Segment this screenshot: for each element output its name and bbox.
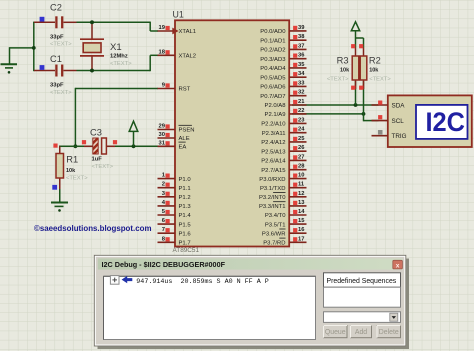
svg-text:R1: R1 — [66, 155, 78, 165]
svg-text:<TEXT>: <TEXT> — [50, 90, 72, 96]
U1 pin 2 P1.1 — [158, 187, 176, 189]
U1 pin 39 P0.0/AD0 — [289, 30, 306, 32]
svg-text:<TEXT>: <TEXT> — [327, 77, 349, 83]
svg-text:PSEN: PSEN — [179, 128, 195, 134]
svg-text:P1.0: P1.0 — [179, 177, 192, 183]
crystal X1 — [91, 23, 93, 39]
svg-text:10: 10 — [298, 173, 304, 179]
U1 pin 28 P2.7/A15 — [289, 169, 306, 171]
button Add — [351, 326, 372, 338]
U1 pin 13 P3.3/INT1 — [289, 205, 306, 207]
svg-text:<TEXT>: <TEXT> — [92, 164, 114, 170]
wire SCL net: U1 pin 22 to R2 then debugger — [292, 113, 364, 115]
debug log listbox — [104, 276, 316, 339]
svg-text:P3.7/RD: P3.7/RD — [263, 241, 285, 247]
resistor R2 10k — [363, 48, 365, 56]
svg-text:P3.3/INT1: P3.3/INT1 — [259, 204, 286, 210]
svg-text:22: 22 — [298, 108, 304, 114]
op-amp/MCU U1 AT89C51 body — [175, 20, 289, 246]
svg-text:7: 7 — [162, 227, 165, 233]
svg-text:P1.4: P1.4 — [179, 213, 192, 219]
svg-text:31: 31 — [159, 140, 166, 146]
svg-text:39: 39 — [298, 25, 305, 31]
node junction VCC arrow / EA wire — [132, 144, 136, 148]
svg-text:P0.5/AD5: P0.5/AD5 — [260, 75, 286, 81]
svg-text:Add: Add — [355, 329, 367, 336]
svg-text:TRIG: TRIG — [392, 133, 407, 140]
svg-text:25: 25 — [298, 136, 305, 142]
svg-text:P2.6/A14: P2.6/A14 — [261, 159, 286, 165]
wire R3 bottom to SDA — [355, 81, 357, 105]
U1 pin 8 P1.7 — [158, 241, 176, 243]
resistor R1 10k — [59, 146, 61, 154]
svg-text:26: 26 — [298, 145, 305, 151]
U1 pin 37 P0.2/AD2 — [289, 48, 306, 50]
svg-text:33: 33 — [298, 80, 305, 86]
svg-text:P2.3/A11: P2.3/A11 — [262, 131, 286, 137]
wire C1-C2 vertical bus — [33, 22, 35, 72]
svg-text:21: 21 — [298, 99, 305, 105]
svg-text:P0.4/AD4: P0.4/AD4 — [260, 66, 286, 72]
wire VCC to R3/R2 tops — [355, 30, 357, 48]
node junction redraw (crystal top) — [90, 20, 94, 24]
svg-text:P0.6/AD6: P0.6/AD6 — [260, 85, 286, 91]
svg-text:©saeedsolutions.blogspot.com: ©saeedsolutions.blogspot.com — [34, 223, 152, 233]
U1 pin 30 ALE — [158, 137, 176, 139]
svg-text:2: 2 — [162, 182, 165, 188]
svg-text:P3.6/WR: P3.6/WR — [262, 231, 286, 237]
svg-text:P0.3/AD3: P0.3/AD3 — [260, 57, 286, 63]
U1 pin 3 P1.2 — [158, 196, 176, 198]
capacitor C3 (1uF) — [84, 145, 93, 147]
svg-text:P1.7: P1.7 — [179, 241, 191, 247]
node junction crystal top — [90, 20, 94, 24]
svg-text:37: 37 — [298, 43, 304, 49]
I2C Debug window — [94, 255, 409, 349]
I2C debugger pin SDA — [372, 104, 388, 106]
U1 pin 33 P0.6/AD6 — [289, 85, 306, 87]
wire R2 bottom to SCL jog — [363, 81, 365, 121]
capacitor C2 — [34, 21, 55, 23]
svg-text:P3.1/TXD: P3.1/TXD — [260, 186, 286, 192]
svg-text:10k: 10k — [340, 67, 350, 73]
U1 pin 35 P0.4/AD4 — [289, 67, 306, 69]
U1 pin 9 RST — [158, 88, 176, 90]
wire R1 bottom to ground — [59, 178, 61, 203]
svg-text:18: 18 — [159, 49, 166, 55]
svg-text:XTAL1: XTAL1 — [179, 29, 197, 35]
svg-text:C1: C1 — [50, 54, 62, 64]
U1 pin 4 P1.3 — [158, 205, 176, 207]
svg-text:Delete: Delete — [379, 329, 399, 336]
svg-text:14: 14 — [298, 209, 305, 215]
U1 pin 21 P2.0/A8 — [289, 104, 306, 106]
svg-text:28: 28 — [298, 164, 305, 170]
U1 pin 34 P0.5/AD5 — [289, 76, 306, 78]
svg-text:34: 34 — [298, 71, 305, 77]
U1 pin 11 P3.1/TXD — [289, 187, 306, 189]
svg-text:<TEXT>: <TEXT> — [50, 42, 72, 48]
node junction R2/SCL — [362, 112, 366, 116]
svg-text:27: 27 — [298, 154, 304, 160]
U1 pin 23 P2.2/A10 — [289, 122, 306, 124]
sequence combo box — [324, 312, 401, 323]
log item blue arrow — [122, 276, 133, 283]
U1 pin 15 P3.5/T1 — [289, 223, 306, 225]
svg-text:19: 19 — [159, 25, 166, 31]
svg-text:RST: RST — [179, 87, 191, 93]
svg-text:33pF: 33pF — [50, 82, 64, 88]
svg-text:C2: C2 — [50, 3, 62, 13]
svg-text:XTAL2: XTAL2 — [179, 54, 197, 60]
ground symbol top-left — [1, 63, 18, 65]
U1 pin 22 P2.1/A9 — [289, 113, 306, 115]
svg-text:38: 38 — [298, 34, 305, 40]
wire EA/VCC net: R1 top - C3 - U1 pin 31 — [59, 145, 93, 147]
U1 pin 19 XTAL1 — [158, 30, 176, 32]
U1 pin 27 P2.6/A14 — [289, 159, 306, 161]
U1 pin 10 P3.0/RXD — [289, 178, 306, 180]
I2C debugger pin TRIG — [372, 135, 388, 137]
node junction RST/R1/C3 — [74, 144, 78, 148]
svg-text:P2.7/A15: P2.7/A15 — [261, 168, 286, 174]
U1 pin 1 P1.0 — [158, 178, 176, 180]
capacitor C1 — [34, 70, 55, 72]
node junction crystal bottom — [90, 69, 94, 73]
svg-text:P1.2: P1.2 — [179, 195, 191, 201]
svg-text:I2C: I2C — [425, 107, 465, 137]
svg-text:16: 16 — [298, 227, 305, 233]
predefined sequences listbox — [324, 287, 401, 307]
svg-text:X1: X1 — [110, 42, 122, 53]
button Delete — [377, 326, 401, 338]
svg-text:P3.5/T1: P3.5/T1 — [265, 222, 286, 228]
U1 pin 17 P3.7/RD — [289, 241, 306, 243]
U1 pin 38 P0.1/AD1 — [289, 39, 306, 41]
U1 pin 25 P2.4/A12 — [289, 141, 306, 143]
svg-text:P1.1: P1.1 — [179, 186, 191, 192]
svg-text:P0.1/AD1: P0.1/AD1 — [260, 38, 285, 44]
pin 19 clock input arrow — [172, 28, 178, 35]
svg-text:AT89C51: AT89C51 — [173, 247, 200, 254]
svg-text:P2.5/A13: P2.5/A13 — [261, 149, 286, 155]
node junction C1/C2/ground — [32, 46, 36, 50]
svg-text:I2C Debug - $II2C DEBUGGER#000: I2C Debug - $II2C DEBUGGER#000F — [102, 261, 226, 269]
wire XTAL2 net: C1 to U1 pin 18 — [77, 70, 151, 72]
svg-text:P1.3: P1.3 — [179, 204, 192, 210]
U1 pin 5 P1.4 — [158, 214, 176, 216]
svg-text:P3.2/INT0: P3.2/INT0 — [259, 195, 286, 201]
svg-text:11: 11 — [298, 182, 305, 188]
svg-text:P2.4/A12: P2.4/A12 — [261, 140, 285, 146]
svg-text:P0.0/AD0: P0.0/AD0 — [260, 29, 286, 35]
svg-text:<TEXT>: <TEXT> — [66, 176, 88, 182]
wire RST net: U1 pin 9 to R1/C3 node — [75, 88, 158, 90]
svg-text:32: 32 — [298, 90, 304, 96]
svg-text:12: 12 — [298, 191, 304, 197]
U1 pin 36 P0.3/AD3 — [289, 58, 306, 60]
svg-text:36: 36 — [298, 53, 305, 59]
U1 pin 26 P2.5/A13 — [289, 150, 306, 152]
U1 pin 7 P1.6 — [158, 232, 176, 234]
U1 pin 12 P3.2/INT0 — [289, 196, 306, 198]
svg-text:SCL: SCL — [392, 118, 405, 125]
svg-text:x: x — [396, 262, 400, 269]
svg-text:Predefined Sequences: Predefined Sequences — [327, 278, 397, 285]
resistor R3 10k — [355, 48, 357, 56]
svg-text:35: 35 — [298, 62, 305, 68]
svg-text:P2.1/A9: P2.1/A9 — [265, 112, 286, 118]
svg-text:17: 17 — [298, 236, 304, 242]
U1 pin 16 P3.6/WR — [289, 232, 306, 234]
I2C debugger U2 body — [388, 95, 472, 147]
svg-text:P2.2/A10: P2.2/A10 — [261, 122, 286, 128]
svg-text:P1.6: P1.6 — [179, 231, 192, 237]
predefined sequences header — [324, 273, 401, 287]
U1 pin 32 P0.7/AD7 — [289, 95, 306, 97]
ground symbol below R1 — [51, 202, 68, 204]
button Queue — [324, 326, 348, 338]
svg-text:P3.4/T0: P3.4/T0 — [265, 213, 286, 219]
U1 pin 31 EA — [158, 145, 176, 147]
svg-text:13: 13 — [298, 200, 305, 206]
svg-text:SDA: SDA — [392, 102, 406, 109]
svg-text:10k: 10k — [66, 168, 76, 174]
svg-text:29: 29 — [159, 124, 166, 130]
svg-text:P1.5: P1.5 — [179, 222, 192, 228]
svg-text:947.914us 20.859ms S A0 N FF: 947.914us 20.859ms S A0 N FF A P — [136, 278, 268, 286]
I2C debugger pin SCL — [372, 120, 388, 122]
svg-text:C3: C3 — [90, 127, 102, 137]
U1 pin 24 P2.3/A11 — [289, 132, 306, 134]
node junction redraw (crystal bottom) — [90, 69, 94, 73]
svg-text:P0.2/AD2: P0.2/AD2 — [260, 48, 285, 54]
svg-text:23: 23 — [298, 117, 305, 123]
svg-text:24: 24 — [298, 127, 305, 133]
svg-text:33pF: 33pF — [50, 35, 64, 41]
U1 pin 6 P1.5 — [158, 223, 176, 225]
svg-text:P0.7/AD7: P0.7/AD7 — [260, 94, 285, 100]
wire XTAL1 net: C2 to U1 pin 19 — [77, 21, 151, 23]
U1 pin 18 XTAL2 — [158, 54, 176, 56]
I2C logo — [416, 105, 468, 139]
power VCC arrow near EA — [129, 121, 138, 131]
window close button — [393, 260, 403, 269]
power VCC arrow above R3/R2 — [351, 22, 359, 31]
svg-text:12Mhz: 12Mhz — [110, 54, 128, 60]
svg-text:R3: R3 — [337, 56, 349, 66]
svg-text:1uF: 1uF — [92, 157, 103, 163]
svg-text:10k: 10k — [369, 67, 379, 73]
node junction R3/SDA — [354, 103, 358, 107]
U1 pin 14 P3.4/T0 — [289, 214, 306, 216]
svg-text:EA: EA — [179, 145, 187, 151]
svg-text:U1: U1 — [173, 10, 184, 20]
log item expand box — [110, 276, 119, 285]
svg-text:<TEXT>: <TEXT> — [369, 77, 391, 83]
svg-text:P2.0/A8: P2.0/A8 — [265, 103, 287, 109]
svg-text:P3.0/RXD: P3.0/RXD — [259, 177, 285, 183]
svg-text:15: 15 — [298, 218, 305, 224]
svg-text:ALE: ALE — [179, 136, 190, 142]
svg-text:<TEXT>: <TEXT> — [110, 61, 132, 67]
svg-text:30: 30 — [159, 132, 165, 138]
svg-text:Queue: Queue — [325, 329, 346, 336]
U1 pin 29 PSEN — [158, 129, 176, 131]
wire to ground (top-left) — [10, 47, 35, 49]
wire SDA net: U1 pin 21 to I2C debugger — [292, 104, 379, 106]
svg-text:R2: R2 — [369, 56, 381, 66]
